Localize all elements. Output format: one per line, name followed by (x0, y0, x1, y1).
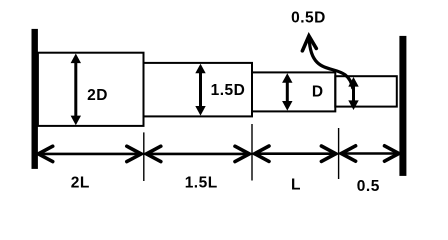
svg-text:1.5L: 1.5L (185, 175, 218, 192)
0.5D diameter arrow (348, 77, 358, 110)
dimension 2L arrow (38, 146, 141, 161)
0.5D leader arrowhead (302, 36, 316, 51)
left wall (32, 29, 38, 169)
extension line 2 (251, 124, 253, 181)
1.5D diameter arrow (195, 64, 205, 116)
dimension L arrow (255, 146, 336, 161)
svg-text:2D: 2D (87, 87, 108, 104)
svg-text:0.5D: 0.5D (291, 10, 326, 27)
svg-text:2L: 2L (71, 175, 90, 192)
extension line 3 (338, 128, 340, 179)
shaft segment 4 (0.5D) (335, 76, 397, 106)
shaft segment 1 (2D) (38, 53, 144, 126)
svg-text:0.5: 0.5 (357, 178, 380, 195)
shaft segment 3 (D) (252, 72, 335, 111)
dimension 0.5 arrow (341, 146, 399, 161)
D diameter arrow (282, 73, 292, 110)
0.5D leader curve (309, 39, 353, 90)
shaft segment 2 (1.5D) (144, 63, 253, 117)
svg-text:D: D (312, 84, 324, 101)
right wall (399, 36, 406, 176)
extension line 1 (143, 132, 145, 181)
2D diameter arrow (71, 54, 81, 126)
svg-text:1.5D: 1.5D (211, 82, 246, 99)
dimension 1.5L arrow (146, 146, 249, 161)
svg-text:L: L (291, 177, 301, 194)
